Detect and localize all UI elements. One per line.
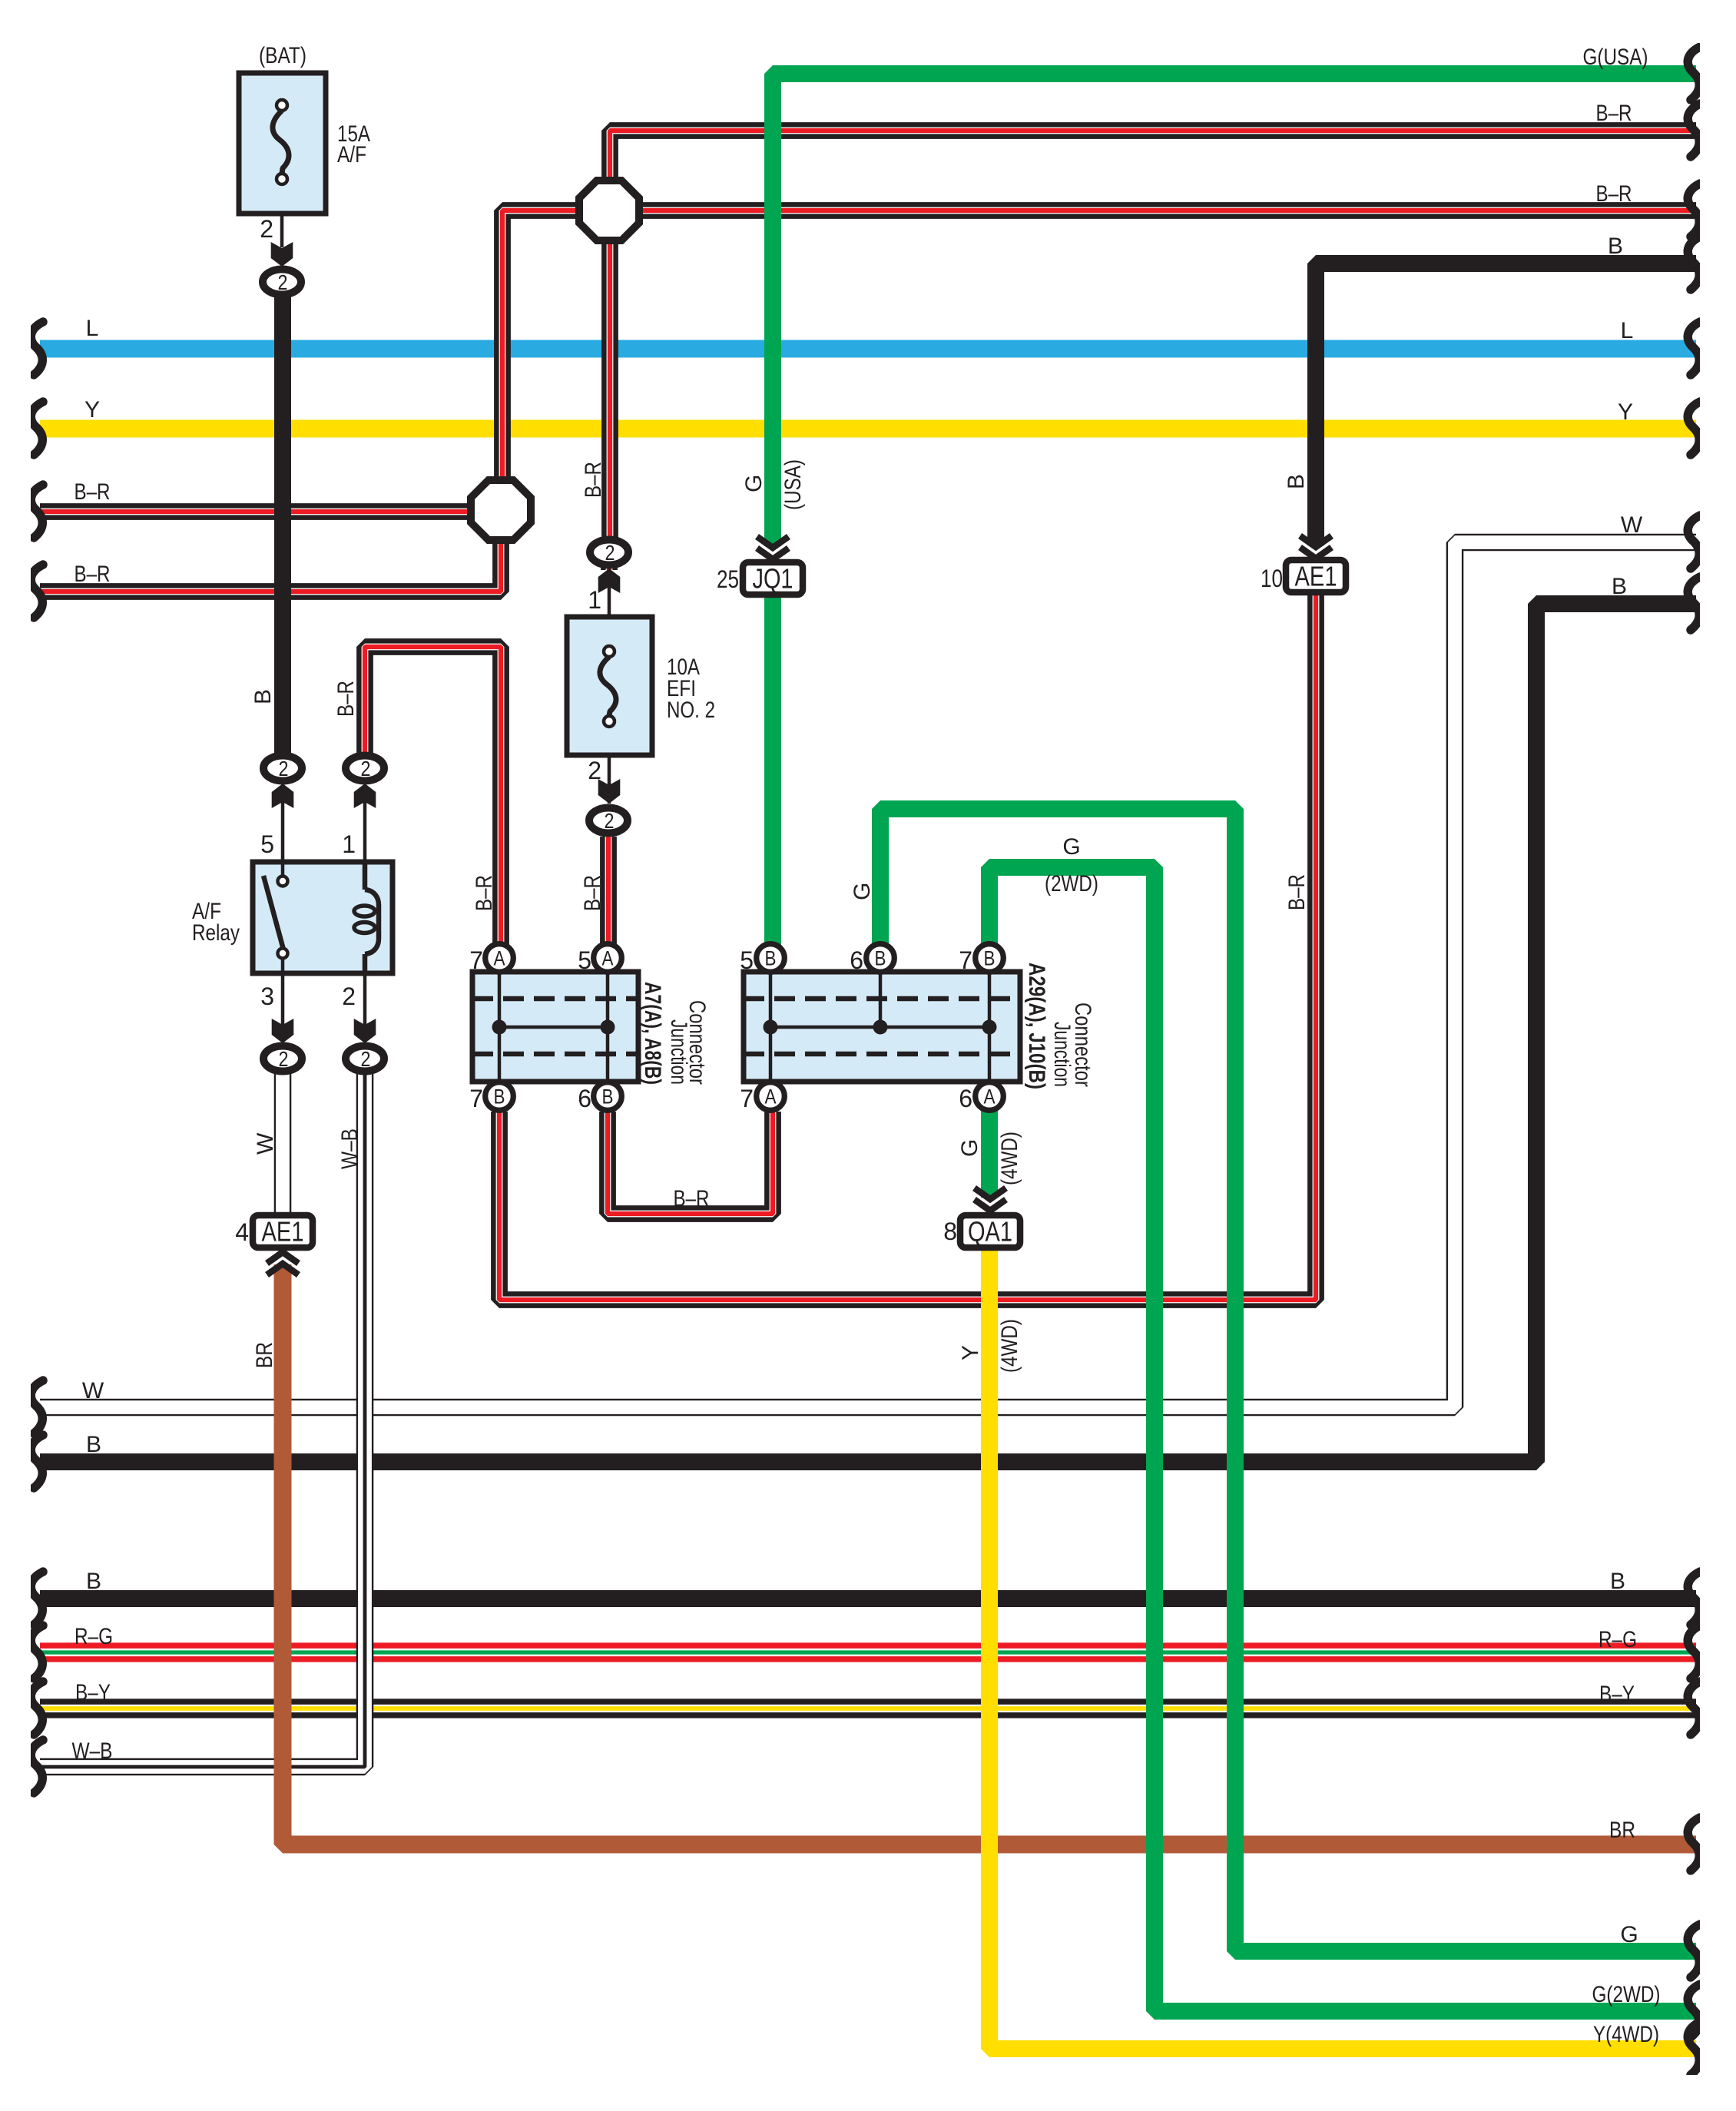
svg-text:B–R: B–R [581,462,606,498]
svg-text:A29(A), J10(B): A29(A), J10(B) [1024,963,1049,1089]
svg-text:A: A [984,1085,996,1109]
svg-text:B–R: B–R [1284,874,1310,910]
svg-text:10: 10 [1261,565,1283,592]
svg-text:A: A [602,947,614,970]
svg-text:8: 8 [943,1218,957,1245]
svg-text:6: 6 [959,1085,972,1112]
svg-text:JQ1: JQ1 [753,563,793,595]
svg-text:Connector: Connector [684,1000,710,1085]
svg-text:NO. 2: NO. 2 [667,698,715,723]
svg-text:B: B [86,1569,101,1594]
svg-text:B–R: B–R [333,681,359,717]
svg-text:(4WD): (4WD) [997,1319,1022,1373]
svg-text:R–G: R–G [1599,1627,1637,1652]
svg-text:BR: BR [1609,1818,1635,1843]
svg-text:Y(4WD): Y(4WD) [1593,2022,1659,2047]
svg-text:B: B [765,947,777,970]
svg-text:B–R: B–R [75,479,111,505]
svg-text:B–Y: B–Y [1599,1682,1635,1707]
svg-text:B: B [984,947,996,970]
svg-text:G: G [1062,834,1080,860]
svg-text:Y: Y [1618,399,1633,425]
svg-text:B–R: B–R [472,875,497,911]
svg-text:5: 5 [578,946,591,974]
svg-text:4: 4 [235,1218,249,1246]
svg-text:B–R: B–R [75,562,111,587]
svg-text:2: 2 [361,1047,371,1071]
svg-text:B: B [1608,234,1623,259]
svg-text:A7(A), A8(B): A7(A), A8(B) [640,982,665,1085]
svg-text:BR: BR [252,1342,277,1368]
svg-text:B: B [602,1085,614,1109]
svg-text:2: 2 [260,215,273,243]
svg-text:W: W [253,1132,278,1155]
svg-text:7: 7 [469,1085,483,1112]
svg-text:G: G [1620,1922,1638,1947]
svg-text:G: G [850,883,875,900]
svg-text:2: 2 [279,757,289,780]
svg-text:2: 2 [605,541,615,565]
svg-text:L: L [86,316,99,341]
svg-text:G: G [741,475,767,492]
svg-text:2: 2 [361,757,371,780]
svg-text:Y: Y [958,1345,983,1360]
svg-text:AE1: AE1 [1295,561,1337,592]
svg-text:B–R: B–R [1596,181,1632,207]
svg-text:(4WD): (4WD) [997,1132,1022,1185]
svg-text:(BAT): (BAT) [259,43,306,68]
svg-text:Y: Y [84,397,100,423]
svg-text:B: B [86,1432,101,1457]
svg-text:B–R: B–R [1596,101,1632,126]
svg-text:B: B [1612,574,1627,599]
svg-text:W: W [82,1378,104,1403]
svg-text:Connector: Connector [1070,1002,1095,1087]
svg-text:G(USA): G(USA) [1583,45,1648,70]
svg-text:25: 25 [717,565,739,593]
svg-text:2: 2 [278,270,288,294]
svg-text:A/F: A/F [337,142,366,167]
svg-text:6: 6 [850,946,863,974]
svg-text:7: 7 [469,946,483,974]
svg-text:2: 2 [605,809,615,833]
svg-text:B: B [250,689,276,704]
svg-text:1: 1 [342,830,356,858]
svg-text:B: B [1610,1569,1625,1594]
svg-text:W–B: W–B [337,1128,363,1169]
svg-text:3: 3 [260,983,274,1010]
svg-text:G: G [957,1139,982,1157]
svg-text:1: 1 [588,586,601,614]
svg-text:A: A [494,947,505,970]
svg-text:2: 2 [279,1047,289,1071]
svg-text:7: 7 [959,946,972,974]
svg-text:G(2WD): G(2WD) [1592,1982,1661,2007]
svg-text:QA1: QA1 [968,1216,1012,1248]
svg-text:L: L [1621,318,1634,343]
svg-text:6: 6 [578,1085,591,1112]
svg-text:AE1: AE1 [262,1216,304,1248]
svg-text:B–Y: B–Y [75,1680,111,1705]
svg-text:5: 5 [260,830,274,858]
svg-text:W: W [1621,512,1643,538]
svg-text:2: 2 [342,983,356,1010]
svg-text:B–R: B–R [580,875,605,911]
svg-text:W–B: W–B [72,1738,113,1764]
svg-text:B: B [875,947,886,970]
svg-text:B–R: B–R [674,1186,710,1211]
svg-text:(2WD): (2WD) [1045,871,1098,896]
svg-text:A: A [765,1085,777,1109]
svg-text:B: B [494,1085,505,1109]
svg-text:Relay: Relay [192,920,240,946]
svg-text:7: 7 [740,1085,754,1112]
svg-text:B: B [1284,474,1309,489]
svg-text:5: 5 [740,946,754,974]
svg-text:(USA): (USA) [780,459,806,510]
svg-text:R–G: R–G [75,1624,113,1649]
svg-text:2: 2 [588,757,601,784]
